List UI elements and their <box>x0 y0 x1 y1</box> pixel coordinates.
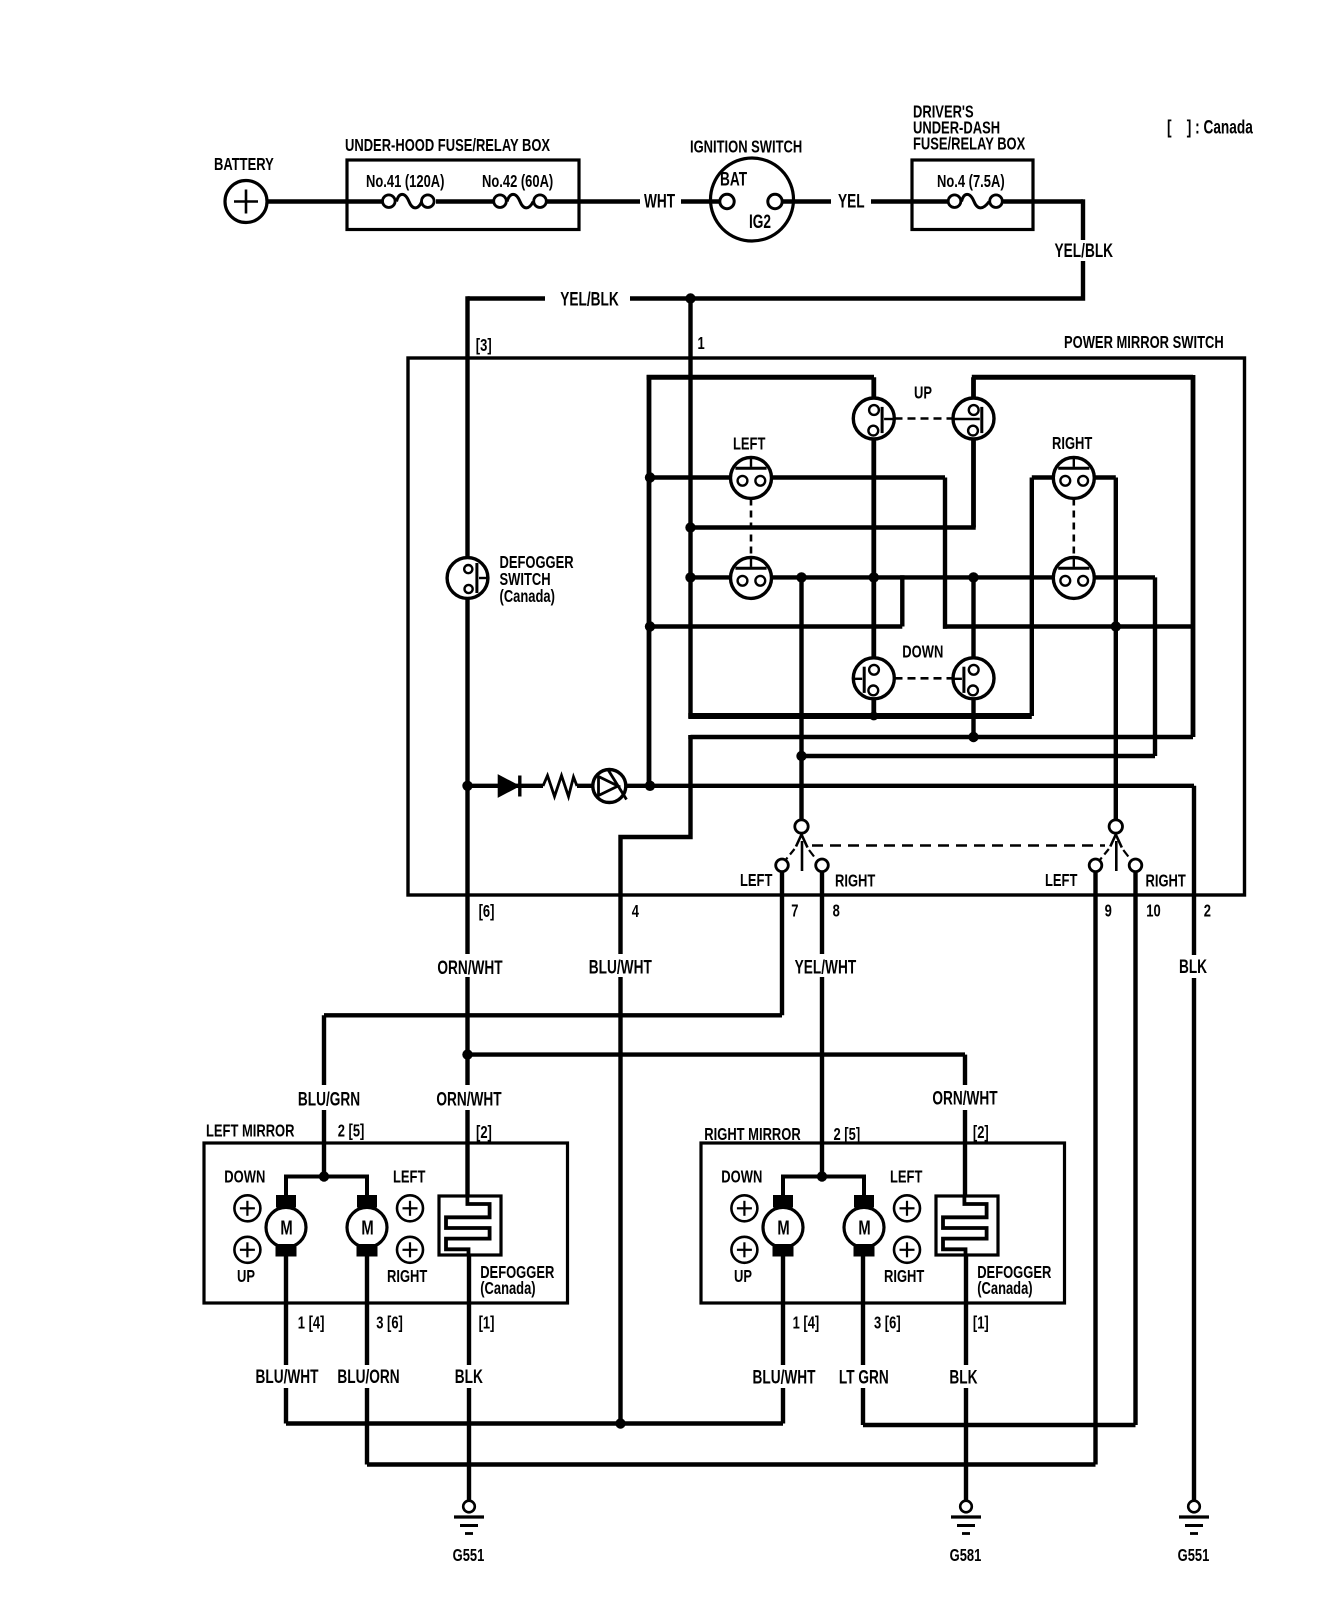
wire right mirror BLK to ground <box>964 1388 968 1501</box>
wire right mirror pin3 lower <box>861 1388 865 1425</box>
left mirror assembly <box>204 1143 568 1303</box>
selector arm right mirror-select <box>1109 820 1122 833</box>
wire pin1 vertical <box>688 296 692 718</box>
svg-text:YEL/BLK: YEL/BLK <box>560 288 619 310</box>
motor M-updown x=286 <box>266 1207 306 1247</box>
node row477-leftedge <box>645 472 655 482</box>
wire row pin7 to BLU/GRN <box>324 1013 782 1017</box>
svg-text:7: 7 <box>791 902 798 922</box>
dashed link DOWN pair <box>895 677 953 680</box>
wire row ORN/WHT to right mirror <box>468 1052 966 1056</box>
defogger grid element x=936 <box>936 1196 998 1255</box>
ground G551 left <box>463 1501 475 1513</box>
defogger switch SW2 <box>447 558 488 599</box>
switch contact LEFT-lower <box>731 557 772 598</box>
svg-text:BLU/WHT: BLU/WHT <box>589 956 652 978</box>
svg-text:(Canada): (Canada) <box>977 1279 1032 1299</box>
node bottomedge-downL <box>869 712 878 721</box>
wire RIGHT-up row <box>1032 475 1116 479</box>
node row756-selL <box>796 751 806 761</box>
fuse F41 terminal left <box>383 195 396 208</box>
svg-text:LEFT: LEFT <box>393 1168 426 1188</box>
driver's under-dash fuse/relay box <box>912 160 1033 230</box>
wire pin7 YEL/WHT <box>780 869 784 1015</box>
wire left mirror pin1-gnd upper <box>467 1256 471 1365</box>
wire RIGHT-up row left drop <box>1030 478 1034 717</box>
dashed link LEFT pair <box>750 499 753 558</box>
svg-text:LEFT: LEFT <box>1045 871 1078 891</box>
wire ORN/WHT to left defogger <box>465 1110 469 1196</box>
ground G581 <box>960 1501 972 1513</box>
svg-text:10: 10 <box>1146 902 1161 922</box>
svg-text:BLU/GRN: BLU/GRN <box>298 1088 360 1110</box>
fuse F42 element <box>507 194 533 208</box>
wire row 626 left <box>650 624 902 628</box>
fuse F4 element <box>962 194 990 208</box>
svg-text:2 [5]: 2 [5] <box>338 1122 365 1142</box>
wire LEFT-up row <box>650 475 945 479</box>
svg-text:9: 9 <box>1105 902 1112 922</box>
wire pin8 upper <box>820 869 824 954</box>
svg-text:UP: UP <box>734 1267 752 1287</box>
svg-text:BLU/ORN: BLU/ORN <box>337 1366 399 1388</box>
switch contact RIGHT-lower <box>1053 557 1094 598</box>
wire YEL/BLK down segment upper <box>1081 199 1085 240</box>
wire left mirror pin3 lower <box>365 1388 369 1465</box>
svg-text:RIGHT: RIGHT <box>884 1267 925 1287</box>
svg-text:1: 1 <box>698 334 705 354</box>
svg-text:RIGHT: RIGHT <box>387 1267 428 1287</box>
motor M-leftright x=367 <box>347 1207 387 1247</box>
fuse F4 terminal left <box>948 195 961 208</box>
svg-text:1 [4]: 1 [4] <box>793 1314 820 1334</box>
diode D1 <box>499 776 518 795</box>
ignition BAT terminal <box>720 194 734 208</box>
wire right mirror pin3 upper <box>861 1257 865 1366</box>
svg-text:YEL: YEL <box>838 190 865 212</box>
wire LEFT-up row drop <box>943 478 947 629</box>
svg-text:G551: G551 <box>1178 1546 1210 1566</box>
svg-text:LEFT: LEFT <box>733 435 766 455</box>
svg-text:[ ] : Canada: [ ] : Canada <box>1167 116 1254 138</box>
wire left mirror pin1 lower <box>284 1388 288 1424</box>
svg-text:LEFT MIRROR: LEFT MIRROR <box>206 1122 294 1142</box>
motor M-leftright x=864 <box>844 1207 884 1247</box>
wire YEL/BLK left segment <box>468 296 546 300</box>
power mirror switch box <box>408 358 1245 895</box>
svg-text:DOWN: DOWN <box>224 1168 265 1188</box>
switch contact LEFT-upper <box>731 457 772 498</box>
wire pin6 ORN/WHT middle <box>465 977 469 1085</box>
ignition IG2 terminal <box>768 194 782 208</box>
svg-text:(Canada): (Canada) <box>500 587 555 607</box>
wire row BLU/ORN to pin9 <box>367 1462 1096 1466</box>
svg-text:POWER MIRROR SWITCH: POWER MIRROR SWITCH <box>1064 333 1224 353</box>
ground G551 right <box>1188 1501 1200 1513</box>
ignition switch SW1 <box>711 158 794 241</box>
wire YEL to under-dash fuse box <box>871 199 912 203</box>
svg-text:LEFT: LEFT <box>890 1168 923 1188</box>
svg-text:1 [4]: 1 [4] <box>298 1314 325 1334</box>
fuse F4 terminal right <box>990 195 1003 208</box>
svg-text:[2]: [2] <box>476 1123 492 1143</box>
node ORNWHT-split <box>462 1049 472 1059</box>
switch contact DOWN-left <box>853 658 894 699</box>
wire row LT GRN to pin10 <box>863 1423 1136 1427</box>
svg-text:DOWN: DOWN <box>902 643 943 663</box>
LED L1 <box>593 770 626 803</box>
wire diode row right <box>577 784 1194 788</box>
svg-text:BLU/WHT: BLU/WHT <box>255 1366 318 1388</box>
fuse F41 element <box>397 194 422 208</box>
switch contact UP-right <box>953 398 994 439</box>
node right-bridge <box>817 1171 827 1181</box>
svg-text:[2]: [2] <box>973 1123 989 1143</box>
wire pin10 <box>1133 870 1137 1425</box>
wire fuse 42 to WHT <box>547 199 640 203</box>
svg-text:BLK: BLK <box>949 1366 977 1388</box>
motor M-updown x=783 <box>763 1207 803 1247</box>
svg-text:LT GRN: LT GRN <box>839 1366 889 1388</box>
switch contact UP-left <box>853 398 894 439</box>
svg-text:RIGHT: RIGHT <box>1146 872 1187 892</box>
wire row 756 riser <box>1153 577 1157 756</box>
wire UP-right vertical <box>971 377 976 527</box>
wire BLU/GRN upper <box>322 1015 326 1085</box>
wire pin3 defogger vertical upper <box>465 296 469 954</box>
wire common row 577 <box>691 575 1156 579</box>
wire DOWN-right vertical <box>971 577 975 737</box>
svg-text:4: 4 <box>632 902 639 922</box>
switch contact RIGHT-upper <box>1053 457 1094 498</box>
node row626-leftedge <box>645 621 655 631</box>
node row577-pin1 <box>685 572 695 582</box>
svg-text:UP: UP <box>914 384 932 404</box>
svg-text:M: M <box>777 1216 789 1239</box>
wire right ORN/WHT lower <box>963 1110 967 1196</box>
node row577-selL <box>796 572 806 582</box>
svg-text:IGNITION SWITCH: IGNITION SWITCH <box>690 138 802 158</box>
svg-text:2: 2 <box>1204 902 1211 922</box>
svg-text:YEL/WHT: YEL/WHT <box>795 956 857 978</box>
svg-text:BAT: BAT <box>720 168 747 190</box>
svg-text:No.42 (60A): No.42 (60A) <box>482 172 553 192</box>
svg-text:M: M <box>858 1216 870 1239</box>
wire fuse 41 to fuse 42 <box>436 199 494 203</box>
defogger grid element x=439 <box>439 1196 501 1255</box>
node row577-downL <box>869 572 879 582</box>
svg-text:ORN/WHT: ORN/WHT <box>932 1087 997 1109</box>
wire left mirror pin1 upper <box>284 1257 288 1366</box>
node row527-pin1 <box>685 522 695 532</box>
wire WHT to BAT terminal <box>681 199 720 203</box>
svg-text:G581: G581 <box>950 1546 982 1566</box>
svg-text:3 [6]: 3 [6] <box>376 1314 403 1334</box>
svg-text:UP: UP <box>237 1267 255 1287</box>
wire UP-left DOWN-left vertical <box>871 377 876 716</box>
wire right ORN/WHT upper <box>963 1055 967 1085</box>
svg-text:[1]: [1] <box>973 1314 989 1334</box>
resistor R1 <box>543 776 577 797</box>
wire assembly top edge A <box>647 375 874 380</box>
node BLUWHT-common <box>615 1418 625 1428</box>
wire right mirror pin1 upper <box>781 1257 785 1366</box>
under-hood fuse/relay box <box>347 160 579 230</box>
fuse F41 terminal right <box>422 195 435 208</box>
wire pin4 jog <box>621 735 691 954</box>
svg-text:ORN/WHT: ORN/WHT <box>437 957 502 979</box>
right mirror assembly <box>701 1143 1065 1303</box>
svg-text:RIGHT: RIGHT <box>1052 434 1093 454</box>
svg-text:(Canada): (Canada) <box>480 1279 535 1299</box>
switch contact DOWN-right <box>953 658 994 699</box>
dashed link RIGHT pair <box>1073 499 1076 558</box>
wire right mirror pin1 lower <box>781 1388 785 1424</box>
wire YEL/BLK corner to horizontal run <box>630 261 1083 299</box>
svg-text:BLK: BLK <box>1179 956 1207 978</box>
svg-text:8: 8 <box>833 902 840 922</box>
wire RIGHT-up row right drop to selector <box>1114 478 1118 821</box>
wire pin8 to right mirror <box>820 977 824 1177</box>
svg-text:[1]: [1] <box>479 1314 495 1334</box>
svg-text:BLK: BLK <box>455 1366 483 1388</box>
svg-text:UNDER-HOOD FUSE/RELAY BOX: UNDER-HOOD FUSE/RELAY BOX <box>345 136 551 156</box>
node row626-rightdrop <box>1111 621 1121 631</box>
selector arm left mirror-select <box>795 820 808 833</box>
node diode-row-left <box>462 781 472 791</box>
wire assembly top edge B <box>972 375 1193 380</box>
wire BLU/GRN lower <box>322 1110 326 1177</box>
svg-text:M: M <box>280 1216 292 1239</box>
node row737-downR <box>968 732 978 742</box>
wire row 626 right <box>943 624 1193 628</box>
svg-text:IG2: IG2 <box>749 211 771 233</box>
wire diode row left <box>468 784 544 788</box>
node diode-row-leftedge <box>645 781 655 791</box>
svg-text:[6]: [6] <box>479 902 495 922</box>
svg-text:DOWN: DOWN <box>721 1168 762 1188</box>
svg-text:WHT: WHT <box>644 190 675 212</box>
wire into fuse 41 <box>348 199 382 203</box>
svg-text:FUSE/RELAY BOX: FUSE/RELAY BOX <box>913 135 1026 155</box>
svg-text:BLU/WHT: BLU/WHT <box>752 1366 815 1388</box>
wire row 756 <box>802 754 1156 758</box>
wire battery to under-hood fuse box <box>267 199 348 203</box>
wire assembly left edge <box>647 375 652 786</box>
wire left mirror pin3 upper <box>365 1257 369 1366</box>
svg-text:3 [6]: 3 [6] <box>874 1314 901 1334</box>
dashed link UP pair <box>895 417 953 420</box>
wire row 737 <box>691 735 1194 739</box>
svg-text:BATTERY: BATTERY <box>214 155 274 175</box>
wire pin9 <box>1093 870 1097 1465</box>
svg-text:No.4 (7.5A): No.4 (7.5A) <box>937 172 1005 192</box>
battery B1 <box>225 181 267 223</box>
wire right mirror gnd upper <box>964 1256 968 1365</box>
wire jog 626 to 577 <box>900 575 904 626</box>
svg-text:RIGHT: RIGHT <box>835 872 876 892</box>
svg-text:No.41 (120A): No.41 (120A) <box>366 172 444 192</box>
fuse F42 terminal left <box>494 195 507 208</box>
wire assembly right edge <box>1191 375 1196 737</box>
svg-text:[3]: [3] <box>476 336 492 356</box>
svg-text:LEFT: LEFT <box>740 871 773 891</box>
wire pin4 BLU/WHT down <box>618 977 622 1424</box>
wire IG2 to YEL <box>782 199 831 203</box>
wire row BLU/WHT common <box>286 1421 783 1425</box>
wire pin2 BLK to ground <box>1192 978 1196 1501</box>
wire into fuse No.4 <box>912 199 948 203</box>
node row577-downR <box>968 572 978 582</box>
wire pin2 BLK upper <box>1192 786 1196 955</box>
svg-text:ORN/WHT: ORN/WHT <box>436 1088 501 1110</box>
wire assembly bottom edge <box>688 713 1032 719</box>
svg-text:G551: G551 <box>453 1546 485 1566</box>
node left-bridge <box>319 1171 329 1181</box>
fuse F42 terminal right <box>534 195 547 208</box>
wire fuse No.4 output <box>1004 199 1084 203</box>
wire left mirror BLK to ground <box>467 1388 471 1501</box>
dashed link selector arms <box>812 844 1105 847</box>
svg-text:YEL/BLK: YEL/BLK <box>1055 240 1114 262</box>
junction YEL/BLK node <box>685 293 695 303</box>
wire row to UP-right <box>691 525 976 529</box>
svg-text:M: M <box>361 1216 373 1239</box>
wire LEFT selector feed <box>799 577 803 820</box>
